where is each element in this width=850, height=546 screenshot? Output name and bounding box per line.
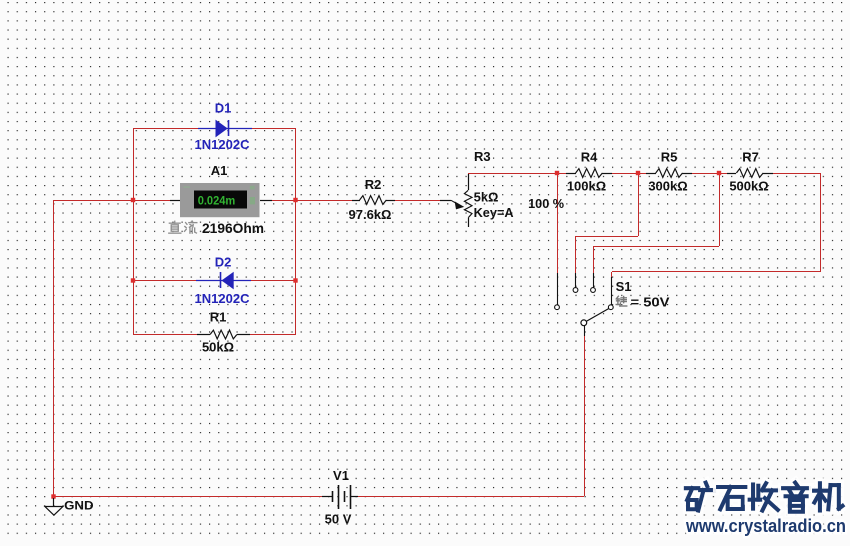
svg-text:1N1202C: 1N1202C (195, 137, 251, 152)
wire: D1 rung (133, 128, 198, 130)
svg-text:A1: A1 (211, 163, 228, 178)
svg-text:300kΩ: 300kΩ (648, 179, 687, 194)
node: R5-R7 junction (717, 171, 721, 175)
svg-text:1N1202C: 1N1202C (195, 291, 251, 306)
wire: R4-R5 junction stair to contact 2 (638, 173, 640, 236)
watermark 矿石收音机 (686, 483, 843, 512)
wire: R5-R7 junction stair to contact 3 (719, 173, 721, 246)
svg-text:S1: S1 (616, 279, 632, 294)
svg-text:GND: GND (64, 498, 94, 512)
resistor R4 (566, 169, 612, 178)
battery V1 (322, 485, 358, 509)
svg-text:R2: R2 (365, 177, 382, 192)
ground symbol (45, 498, 63, 515)
diode D2 (196, 272, 251, 290)
wire: pot tap vertical to contact 1 (557, 173, 559, 273)
wire: bottom rail V1 to S1 (358, 496, 584, 498)
svg-text:= 50V: = 50V (631, 294, 670, 309)
svg-text:R3: R3 (474, 149, 491, 164)
svg-text:500kΩ: 500kΩ (729, 179, 768, 194)
diode D1 (198, 120, 252, 138)
resistor R1 (197, 330, 250, 339)
svg-text:R5: R5 (661, 150, 678, 165)
svg-text:2196Ohm: 2196Ohm (202, 220, 264, 236)
node: D2 right junction (293, 278, 297, 282)
resistor R7 (727, 169, 773, 178)
svg-text:100kΩ: 100kΩ (567, 179, 606, 194)
svg-text:V1: V1 (333, 468, 349, 483)
wire: D2 rung (133, 280, 196, 282)
node: rail/left-branch junction (131, 198, 135, 202)
svg-text:0.024m: 0.024m (198, 196, 236, 208)
svg-text:50 V: 50 V (325, 512, 352, 527)
svg-text:5kΩ: 5kΩ (474, 189, 499, 204)
ammeter U A1 (multimeter box) (170, 183, 272, 217)
svg-text:R4: R4 (581, 150, 598, 165)
svg-text:97.6kΩ: 97.6kΩ (349, 207, 392, 222)
wire: right branch vertical (295, 128, 297, 334)
value 键 = 50V (616, 296, 627, 306)
wire: R1 rung (133, 334, 197, 336)
svg-text:D1: D1 (215, 101, 232, 116)
svg-text:100 %: 100 % (528, 196, 564, 211)
wire: left branch vertical (133, 128, 135, 334)
wire: top rail pot to right corner (468, 173, 566, 175)
svg-text:Key=A: Key=A (474, 205, 515, 220)
node: rail/right-branch junction (293, 198, 297, 202)
wire: stair to S1 throw contact (612, 271, 820, 273)
wire: bottom rail GND to V1 (54, 496, 322, 498)
resistor R2 (352, 196, 395, 205)
wire: rail A1 to R2 to pot wiper (272, 200, 352, 202)
wire: far-left vertical (53, 200, 55, 496)
potentiometer R3 (440, 174, 472, 227)
wire: main rail left segment (54, 200, 170, 202)
svg-text:50kΩ: 50kΩ (202, 339, 234, 354)
wire: S1 pole vertical down (584, 336, 586, 496)
svg-text:R1: R1 (210, 309, 227, 324)
wire: right vertical from R7 (820, 173, 822, 272)
node: ground junction (51, 494, 55, 498)
node: D2 left junction (131, 278, 135, 282)
switch S1 (555, 273, 614, 336)
node: R4-R5 junction (636, 171, 640, 175)
value 直流 2196Ohm (A1 reading) (169, 221, 181, 233)
node: pot tap junction (555, 171, 559, 175)
svg-text:R7: R7 (742, 150, 759, 165)
resistor R5 (646, 169, 692, 178)
svg-text:D2: D2 (215, 255, 232, 270)
svg-text:www.crystalradio.cn: www.crystalradio.cn (685, 516, 846, 536)
